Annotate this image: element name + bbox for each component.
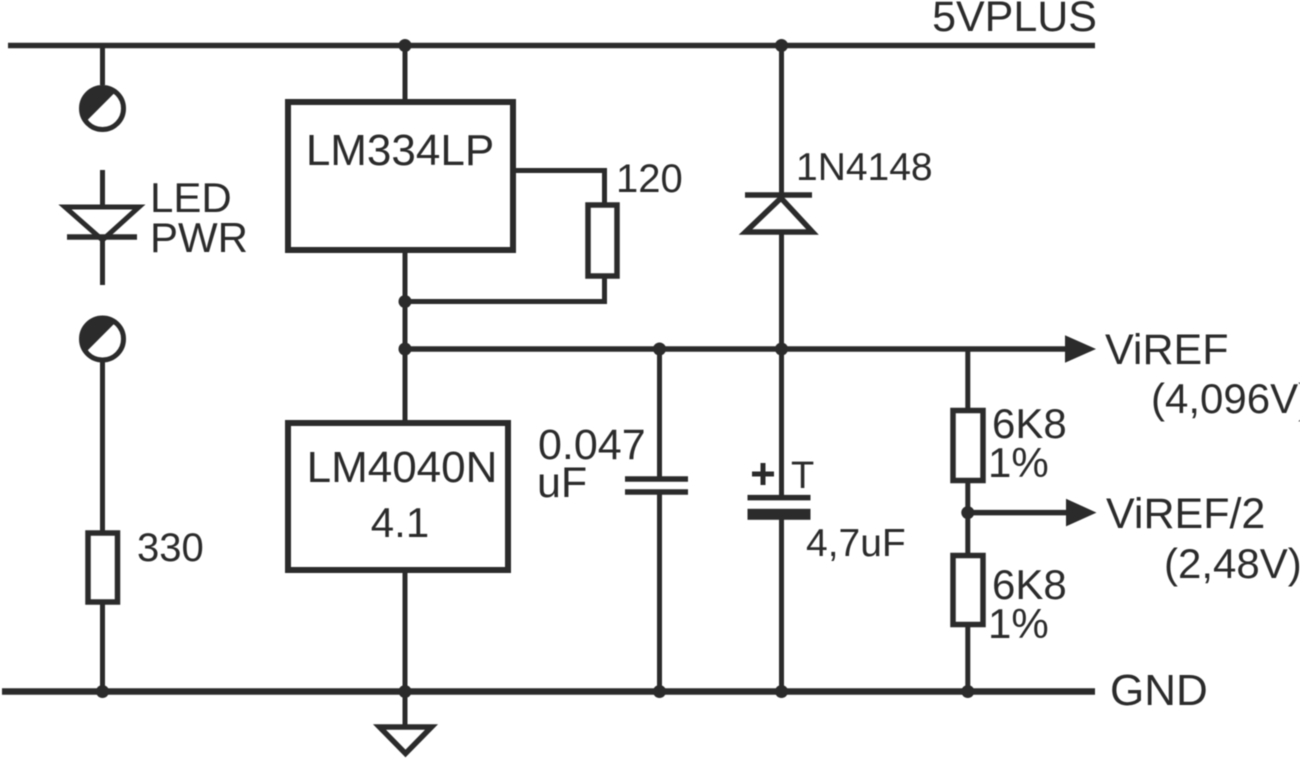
svg-text:T: T: [791, 455, 814, 497]
svg-text:1%: 1%: [988, 600, 1049, 647]
svg-text:ViREF/2: ViREF/2: [1106, 490, 1265, 538]
svg-text:LM334LP: LM334LP: [306, 126, 494, 175]
svg-text:LM4040N: LM4040N: [307, 443, 498, 492]
svg-text:120: 120: [616, 157, 683, 201]
svg-text:1N4148: 1N4148: [796, 146, 933, 189]
svg-text:(2,48V): (2,48V): [1164, 540, 1300, 587]
svg-text:5VPLUS: 5VPLUS: [932, 0, 1097, 41]
svg-text:1%: 1%: [988, 439, 1049, 486]
svg-text:uF: uF: [537, 459, 587, 507]
svg-text:ViREF: ViREF: [1105, 326, 1228, 374]
svg-text:GND: GND: [1110, 666, 1208, 715]
svg-text:PWR: PWR: [150, 214, 248, 261]
svg-text:4,7uF: 4,7uF: [806, 522, 906, 565]
svg-text:4.1: 4.1: [371, 499, 429, 546]
svg-text:330: 330: [137, 526, 204, 570]
svg-text:(4,096V): (4,096V): [1151, 375, 1300, 422]
